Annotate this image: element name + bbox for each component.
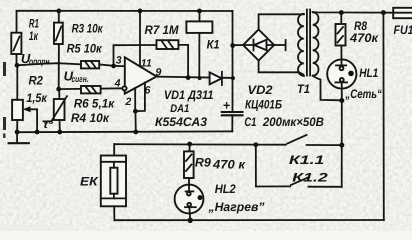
svg-text:К1.1: К1.1 — [289, 153, 325, 167]
svg-text:R9: R9 — [195, 155, 211, 169]
junction dots on ground bus — [15, 130, 20, 135]
wire bridge AC bottom to transformer — [259, 61, 299, 73]
svg-text:сигн.: сигн. — [72, 74, 89, 84]
wire transformer primary bottom to HL1 node — [313, 76, 342, 101]
bridge rectifier VD2 КЦ401Б — [233, 30, 286, 112]
svg-text:„Нагрев”: „Нагрев” — [208, 200, 266, 214]
svg-text:1к: 1к — [29, 29, 39, 43]
svg-text:R4 10к: R4 10к — [71, 111, 110, 125]
svg-text:R5 10к: R5 10к — [67, 42, 103, 56]
potentiometer R2 — [12, 65, 47, 132]
resistor R8 — [336, 10, 379, 59]
fuse FU1 — [381, 8, 412, 37]
resistor R7 — [145, 23, 180, 49]
contact K1.2 — [256, 145, 342, 187]
svg-text:ЕК: ЕК — [80, 174, 99, 188]
resistor R5 — [67, 42, 103, 69]
wire Uопорн rail to pin 3 — [17, 63, 81, 65]
svg-text:3: 3 — [116, 55, 122, 67]
wire op-amp output pin 9 — [157, 77, 233, 78]
neon lamp HL2 — [175, 178, 266, 223]
svg-text:К1: К1 — [207, 38, 220, 52]
wire right mains rail down from FU1 — [382, 13, 384, 221]
svg-text:11: 11 — [141, 58, 152, 70]
relay K1 coil — [186, 9, 219, 80]
svg-text:t°: t° — [44, 119, 54, 131]
svg-text:R3 10к: R3 10к — [72, 22, 104, 36]
svg-text:КЦ401Б: КЦ401Б — [245, 98, 282, 112]
svg-text:2: 2 — [125, 96, 132, 108]
bottom bus wire — [114, 219, 383, 221]
svg-text:R7 1М: R7 1М — [145, 23, 180, 37]
op-amp DA1 К554СА3 — [114, 55, 214, 129]
heater top wire — [114, 142, 344, 148]
wire HL1 node down to contacts — [341, 101, 343, 187]
svg-text:VD1 Д311: VD1 Д311 — [164, 88, 214, 102]
svg-text:„Сеть“: „Сеть“ — [345, 87, 383, 101]
node Uсигн junction dot — [56, 87, 61, 92]
svg-text:VD2: VD2 — [248, 83, 273, 97]
wire transformer primary top to top-right bus — [313, 11, 394, 14]
pins 2 and 6 wires to ground bus — [133, 83, 145, 132]
svg-text:+: + — [223, 99, 231, 113]
svg-text:К1.2: К1.2 — [292, 171, 328, 185]
wire ground bus — [17, 130, 232, 133]
svg-text:200мк×50В: 200мк×50В — [262, 115, 324, 129]
resistor R9 — [184, 144, 246, 178]
wire top bus left section — [17, 11, 233, 66]
resistor R6 — [74, 86, 115, 110]
svg-text:470 к: 470 к — [212, 157, 246, 171]
transformer T1 — [297, 10, 319, 96]
neon lamp HL1 — [327, 59, 382, 103]
svg-text:R2: R2 — [29, 73, 44, 87]
wire right vertical rail (bridge minus / C1) — [230, 11, 235, 112]
ground — [9, 132, 29, 143]
svg-text:DA1: DA1 — [170, 103, 189, 115]
svg-text:4: 4 — [114, 77, 121, 89]
diode VD1 — [210, 72, 222, 85]
svg-text:R6 5,1к: R6 5,1к — [74, 96, 115, 110]
svg-text:HL2: HL2 — [215, 182, 236, 196]
pin 11 wire — [138, 9, 143, 67]
feedback wire to R7 — [111, 45, 190, 80]
resistor R1 — [11, 17, 39, 54]
svg-text:С1: С1 — [244, 115, 256, 129]
wire bridge AC top to transformer — [259, 14, 304, 29]
contact K1.1 — [287, 135, 342, 167]
capacitor C1 — [222, 99, 324, 132]
pin 4 inversion bubble — [122, 86, 126, 90]
svg-text:HL1: HL1 — [359, 66, 378, 80]
wire R3 to Uсигн node (crosses Uопорн rail) — [58, 44, 60, 89]
thermistor R4 — [44, 89, 110, 132]
node Uоporn junction dot — [15, 63, 20, 68]
svg-text:1,5к: 1,5к — [26, 91, 47, 105]
svg-text:К554СА3: К554СА3 — [155, 115, 207, 129]
heater EK — [80, 144, 126, 220]
svg-text:FU1: FU1 — [394, 23, 412, 37]
resistor R3 — [54, 9, 103, 45]
svg-text:Т1: Т1 — [297, 82, 310, 96]
wire Uсигн rail to pin 4 — [59, 87, 123, 90]
svg-text:470к: 470к — [349, 31, 379, 45]
scan artifacts left edge — [3, 62, 74, 231]
